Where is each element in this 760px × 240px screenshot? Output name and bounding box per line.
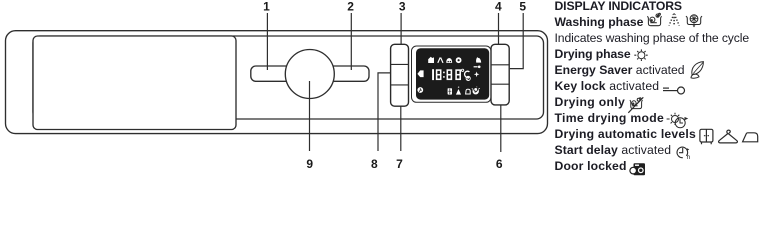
svg-text:h: h [687, 154, 691, 161]
